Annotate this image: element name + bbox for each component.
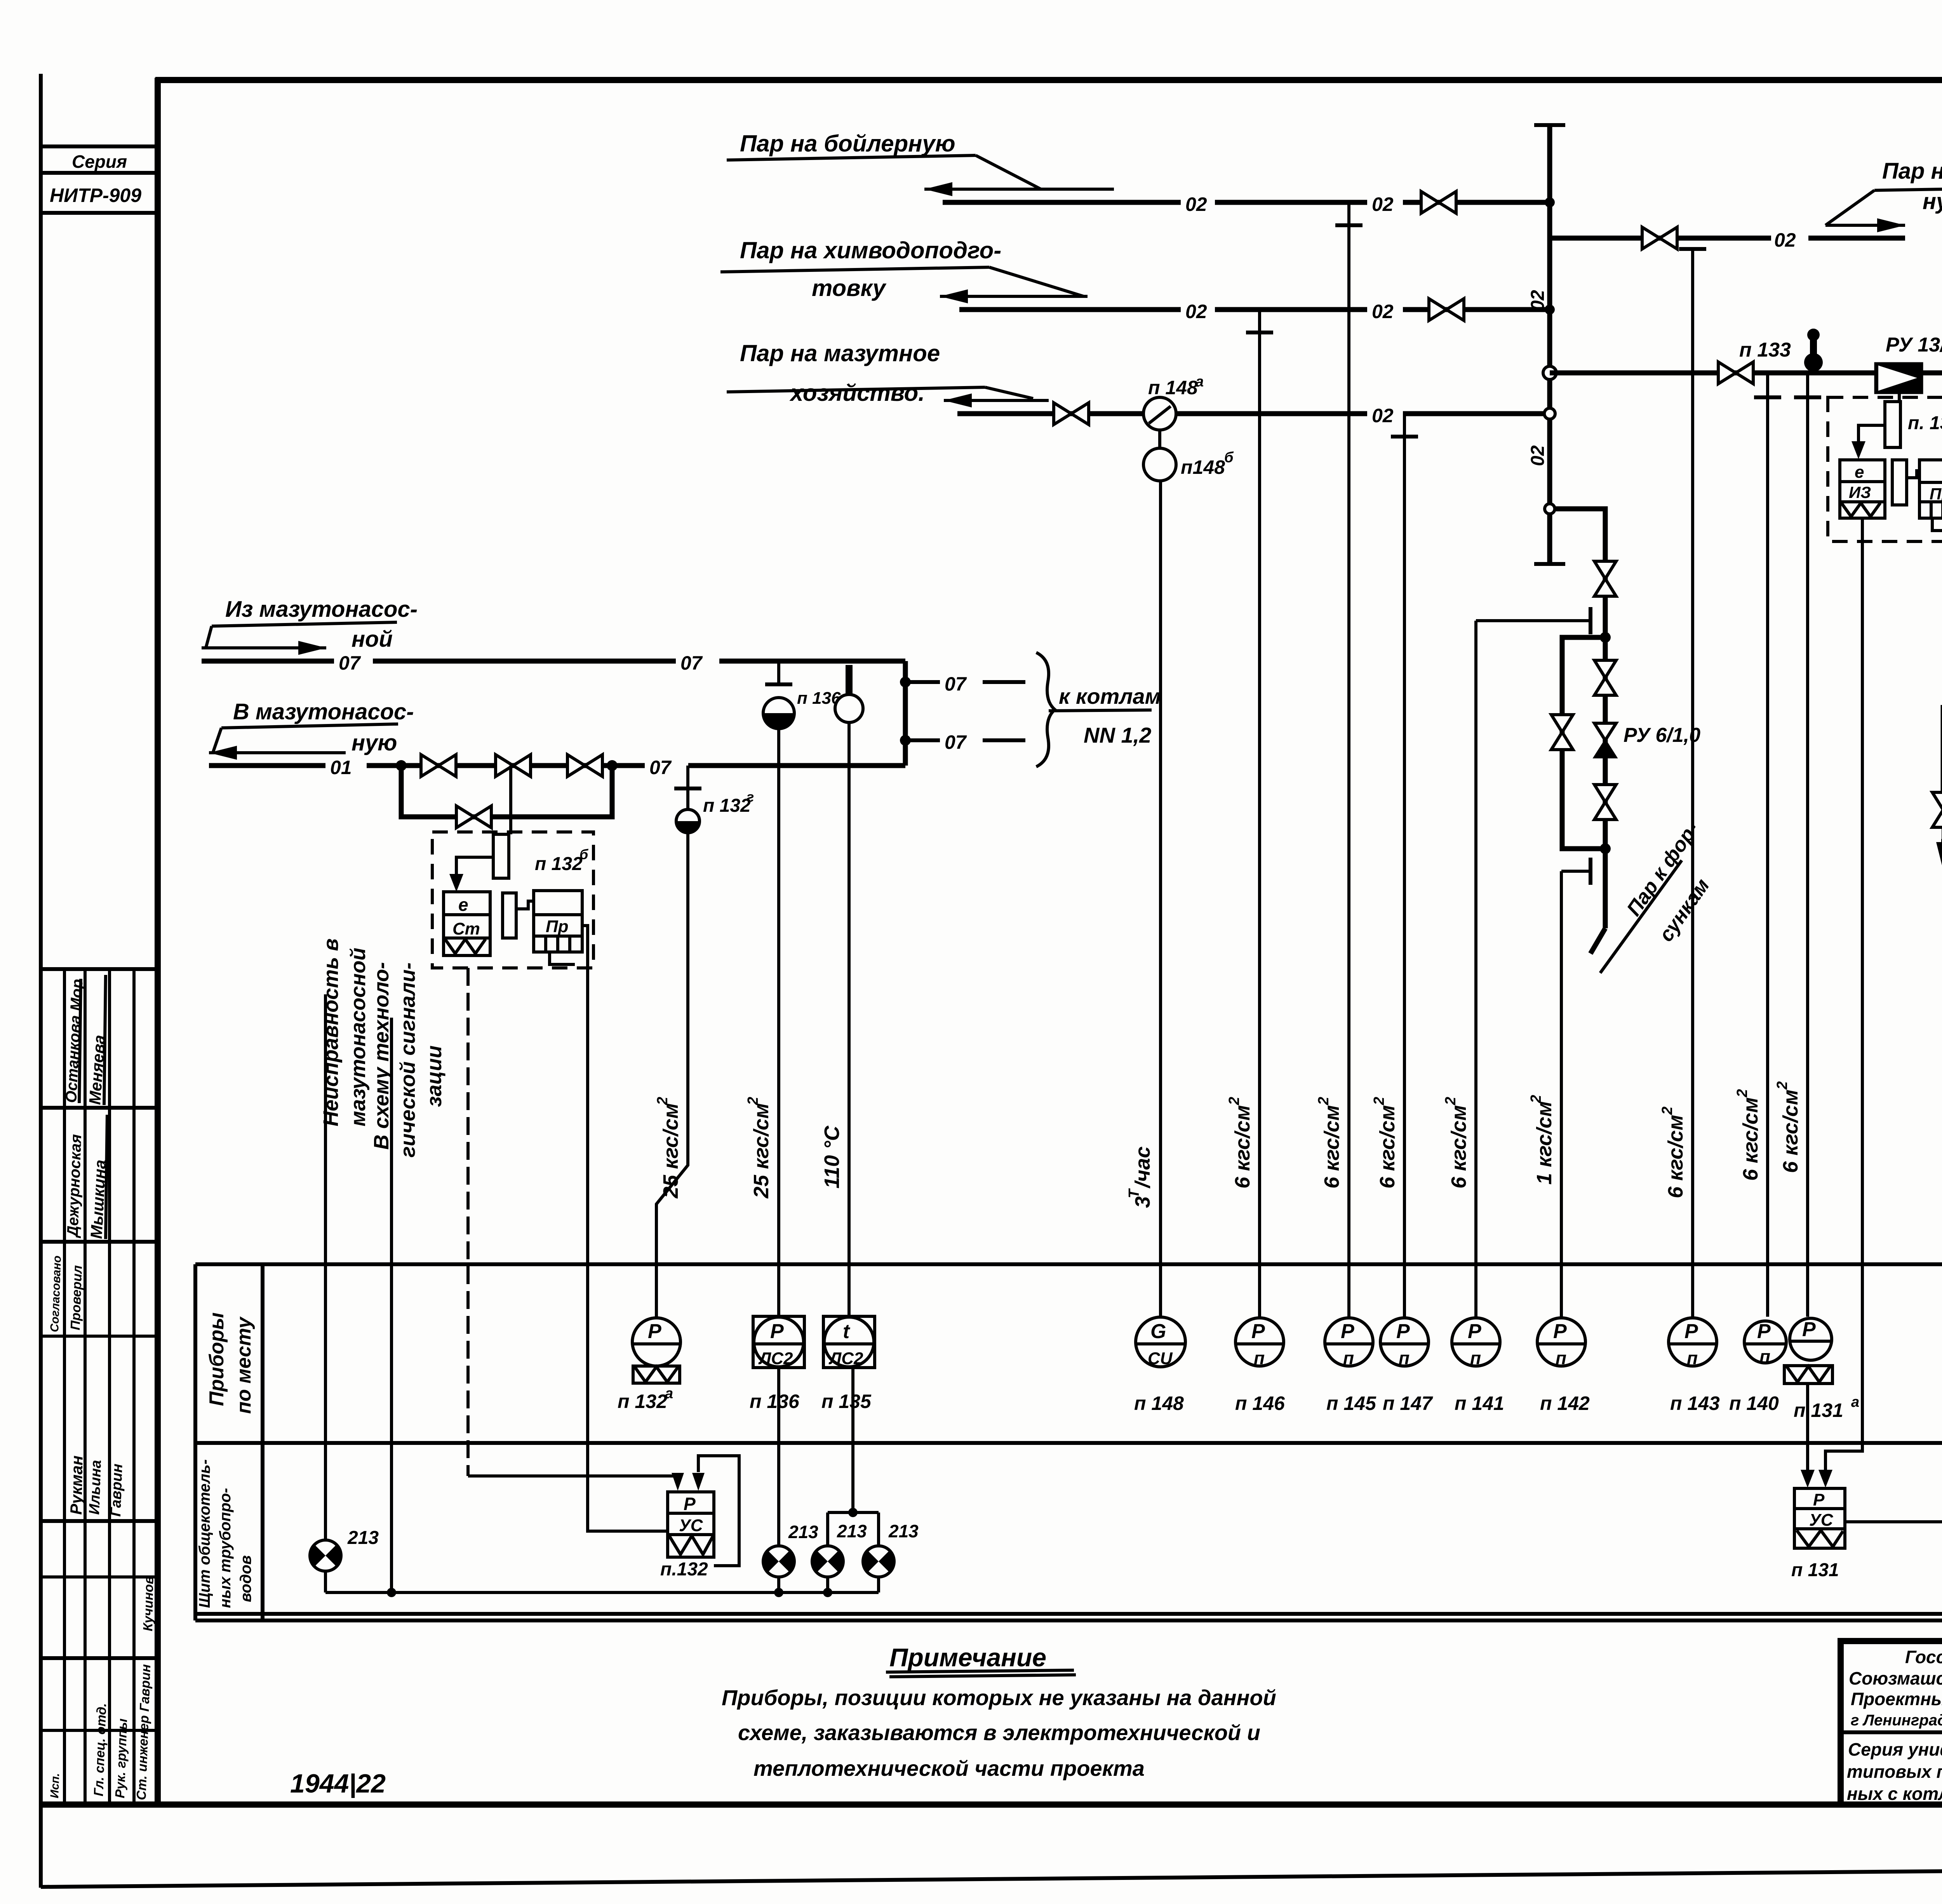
svg-text:е: е (1855, 463, 1864, 482)
svg-text:ЛС2: ЛС2 (828, 1349, 863, 1368)
svg-text:2: 2 (1528, 1095, 1544, 1103)
svg-text:213: 213 (837, 1521, 867, 1541)
svg-text:07: 07 (680, 652, 703, 674)
svg-text:Т: Т (1126, 1188, 1142, 1198)
svg-text:2: 2 (1226, 1097, 1242, 1105)
svg-text:Гаврин: Гаврин (108, 1464, 126, 1517)
svg-text:Приборы, позиции которых не ук: Приборы, позиции которых не указаны на д… (722, 1685, 1276, 1710)
svg-text:Исп.: Исп. (48, 1773, 62, 1798)
svg-text:г Ленинград: г Ленинград (1851, 1712, 1942, 1729)
svg-text:01: 01 (330, 757, 352, 778)
svg-text:РУ 6/1,0: РУ 6/1,0 (1624, 724, 1700, 747)
svg-text:Приборы: Приборы (205, 1312, 228, 1406)
svg-text:P: P (1684, 1320, 1698, 1343)
svg-text:Пар на мазутное: Пар на мазутное (740, 340, 940, 366)
svg-text:В схему техноло-: В схему техноло- (370, 962, 393, 1150)
svg-text:типовых проектов котель-: типовых проектов котель- (1847, 1761, 1942, 1782)
svg-text:Проектный институт N1: Проектный институт N1 (1851, 1689, 1942, 1709)
svg-text:Пр: Пр (1930, 485, 1942, 503)
svg-text:НИТР-909: НИТР-909 (50, 184, 141, 206)
svg-text:а: а (1851, 1394, 1859, 1410)
svg-text:по месту: по месту (233, 1316, 255, 1414)
svg-text:Пар на бойлерную: Пар на бойлерную (740, 131, 955, 157)
svg-text:Р: Р (1813, 1490, 1825, 1509)
svg-text:110 °C: 110 °C (820, 1125, 844, 1189)
svg-text:213: 213 (888, 1521, 919, 1541)
svg-text:водов: водов (237, 1555, 254, 1602)
svg-text:зации: зации (423, 1046, 446, 1107)
svg-text:02: 02 (1774, 229, 1796, 251)
svg-text:п: п (1399, 1348, 1410, 1368)
svg-text:1944|22: 1944|22 (290, 1769, 386, 1798)
svg-text:п 135: п 135 (821, 1391, 872, 1412)
svg-text:Серия: Серия (72, 151, 127, 172)
svg-text:Рук. группы: Рук. группы (113, 1718, 130, 1798)
svg-text:ную установку: ную установку (1923, 189, 1942, 214)
svg-text:P: P (1341, 1320, 1354, 1343)
svg-text:2: 2 (745, 1097, 761, 1105)
svg-text:п 148: п 148 (1134, 1392, 1184, 1414)
svg-text:Пар на химводоподго-: Пар на химводоподго- (740, 237, 1001, 263)
svg-text:6 кгс/см: 6 кгс/см (1739, 1097, 1762, 1181)
svg-text:25 кгс/см: 25 кгс/см (659, 1103, 682, 1199)
svg-text:п 146: п 146 (1235, 1392, 1285, 1414)
svg-text:п. 131: п. 131 (1908, 413, 1942, 433)
svg-text:ных с котлами ДКВР: ных с котлами ДКВР (1847, 1784, 1942, 1804)
svg-text:мазутонасосной: мазутонасосной (346, 948, 370, 1126)
svg-text:02: 02 (1528, 445, 1548, 466)
svg-text:п: п (1687, 1348, 1698, 1368)
svg-text:P: P (1757, 1320, 1771, 1343)
svg-text:2: 2 (1734, 1089, 1751, 1098)
svg-text:п 132: п 132 (703, 795, 751, 816)
svg-text:а: а (665, 1385, 673, 1402)
svg-text:гической сигнали-: гической сигнали- (396, 962, 419, 1157)
svg-text:г: г (747, 789, 754, 805)
svg-text:2: 2 (1443, 1097, 1459, 1105)
svg-text:б: б (579, 846, 589, 862)
svg-text:P: P (648, 1320, 661, 1343)
svg-text:213: 213 (788, 1522, 818, 1542)
svg-text:07: 07 (945, 731, 967, 753)
svg-text:ной: ной (352, 627, 393, 652)
svg-text:Из мазутонасос-: Из мазутонасос- (225, 597, 418, 622)
svg-text:07: 07 (945, 673, 967, 695)
svg-text:схеме, заказываются в электро: схеме, заказываются в электротехнической… (738, 1720, 1260, 1745)
svg-text:Пр: Пр (546, 917, 569, 936)
svg-text:02: 02 (1372, 405, 1394, 426)
svg-text:CU: CU (1148, 1349, 1173, 1368)
svg-text:2: 2 (1659, 1107, 1676, 1115)
svg-text:УС: УС (679, 1516, 703, 1535)
svg-text:Рукман: Рукман (67, 1455, 86, 1515)
svg-text:ЛС2: ЛС2 (758, 1349, 793, 1368)
svg-text:Щит общекотель-: Щит общекотель- (196, 1459, 213, 1608)
svg-text:п 132: п 132 (618, 1391, 667, 1412)
svg-text:РУ 13/б: РУ 13/б (1886, 334, 1942, 356)
svg-text:2: 2 (1774, 1081, 1791, 1090)
svg-text:п.132: п.132 (660, 1559, 708, 1580)
svg-text:п: п (1759, 1346, 1770, 1366)
svg-text:хозяйство.: хозяйство. (789, 380, 925, 406)
svg-text:ных трубопро-: ных трубопро- (217, 1488, 234, 1608)
svg-text:п148: п148 (1181, 456, 1225, 478)
svg-text:п: п (1556, 1348, 1566, 1368)
svg-text:п 145: п 145 (1326, 1392, 1376, 1414)
svg-text:теплотехнической части прое: теплотехнической части проекта (753, 1756, 1145, 1780)
svg-text:Дежурноская: Дежурноская (64, 1134, 85, 1238)
svg-text:2: 2 (654, 1097, 671, 1105)
svg-text:2: 2 (1316, 1097, 1332, 1105)
svg-text:ИЗ: ИЗ (1849, 483, 1871, 501)
svg-text:п 132: п 132 (535, 854, 583, 874)
svg-text:п 133: п 133 (1739, 339, 1791, 361)
svg-text:6 кгс/см: 6 кгс/см (1320, 1105, 1343, 1189)
svg-text:P: P (770, 1320, 784, 1343)
svg-text:6 кгс/см: 6 кгс/см (1376, 1105, 1399, 1189)
svg-text:G: G (1150, 1320, 1166, 1343)
svg-text:п 136: п 136 (750, 1391, 800, 1412)
svg-text:п 131: п 131 (1794, 1399, 1843, 1421)
svg-text:2: 2 (1371, 1097, 1387, 1105)
svg-text:а: а (1195, 374, 1204, 390)
svg-text:Примечание: Примечание (889, 1643, 1046, 1672)
svg-text:Кучинов: Кучинов (141, 1576, 156, 1631)
svg-text:07: 07 (649, 757, 672, 778)
svg-text:6 кгс/см: 6 кгс/см (1779, 1089, 1802, 1173)
svg-text:п 143: п 143 (1670, 1392, 1720, 1414)
svg-text:Пар на деаэрацион-: Пар на деаэрацион- (1882, 158, 1942, 184)
svg-text:Неисправность в: Неисправность в (319, 938, 343, 1126)
svg-text:е: е (458, 895, 468, 915)
svg-text:п 147: п 147 (1383, 1392, 1433, 1414)
svg-text:P: P (1251, 1320, 1265, 1343)
svg-text:п 140: п 140 (1729, 1392, 1779, 1414)
svg-text:п: п (1470, 1348, 1481, 1368)
svg-text:п: п (1343, 1348, 1354, 1368)
svg-text:Ст: Ст (452, 919, 480, 938)
svg-text:п 148: п 148 (1148, 377, 1198, 399)
svg-text:УС: УС (1809, 1511, 1834, 1530)
svg-text:t: t (843, 1320, 851, 1343)
svg-text:6 кгс/см: 6 кгс/см (1447, 1105, 1470, 1189)
svg-text:25 кгс/см: 25 кгс/см (750, 1103, 773, 1199)
svg-text:P: P (1802, 1318, 1816, 1341)
svg-text:/час: /час (1131, 1146, 1154, 1189)
svg-text:P: P (1396, 1320, 1410, 1343)
svg-text:В мазутонасос-: В мазутонасос- (233, 699, 414, 724)
svg-text:NN 1,2: NN 1,2 (1084, 723, 1151, 747)
svg-text:02: 02 (1372, 301, 1394, 322)
svg-text:Согласовано: Согласовано (48, 1255, 64, 1332)
svg-text:Союзмашстройпроект: Союзмашстройпроект (1849, 1668, 1942, 1688)
svg-text:ную: ную (352, 730, 397, 755)
svg-text:02: 02 (1372, 193, 1394, 215)
svg-text:02: 02 (1185, 301, 1207, 322)
svg-text:Госстрой СССР: Госстрой СССР (1905, 1647, 1942, 1667)
svg-text:п 141: п 141 (1455, 1392, 1504, 1414)
svg-text:товку: товку (812, 275, 887, 301)
svg-text:1 кгс/см: 1 кгс/см (1533, 1101, 1556, 1185)
svg-text:6 кгс/см: 6 кгс/см (1231, 1105, 1254, 1189)
svg-text:07: 07 (339, 652, 361, 674)
svg-text:Серия унифицированных: Серия унифицированных (1848, 1739, 1942, 1760)
svg-text:02: 02 (1185, 193, 1207, 215)
svg-text:Ильина: Ильина (86, 1460, 104, 1515)
svg-text:Р: Р (684, 1494, 696, 1514)
svg-text:213: 213 (347, 1528, 379, 1548)
svg-text:P: P (1468, 1320, 1481, 1343)
svg-text:P: P (1553, 1320, 1567, 1343)
svg-text:6 кгс/см: 6 кгс/см (1664, 1115, 1687, 1198)
svg-text:п 142: п 142 (1540, 1392, 1590, 1414)
svg-text:Проверил: Проверил (68, 1265, 85, 1331)
svg-text:п: п (1254, 1348, 1265, 1368)
svg-text:к котлам: к котлам (1059, 684, 1161, 708)
svg-text:п 131: п 131 (1791, 1560, 1839, 1580)
svg-text:б: б (1224, 449, 1234, 466)
